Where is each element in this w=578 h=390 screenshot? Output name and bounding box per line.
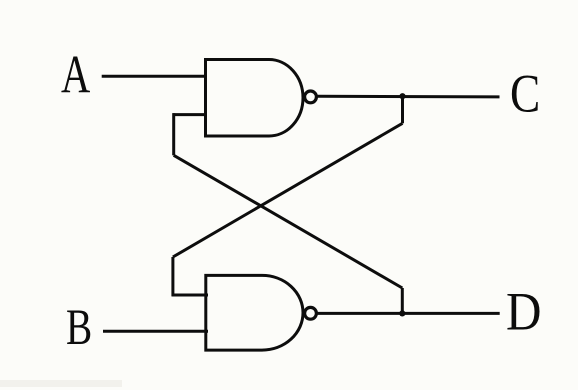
inversion bubble U1 (305, 91, 317, 103)
wire C-feedback riser at U2 (171, 257, 174, 296)
node C junction dot (399, 93, 405, 99)
NAND gate U2 body (206, 275, 303, 350)
wire U2 output to D (315, 312, 499, 315)
svg-text:A: A (61, 45, 91, 105)
wire C-feedback horizontal into U2 upper input (172, 294, 208, 297)
wire D-feedback jog at node D (401, 288, 404, 313)
svg-text:B: B (66, 298, 92, 355)
NAND gate U1 body (206, 60, 303, 137)
wire D-feedback diagonal (174, 155, 403, 288)
inversion bubble U2 (305, 307, 317, 319)
wire B to U2 lower input (103, 330, 208, 333)
svg-text:C: C (510, 64, 540, 124)
wire A to U1 upper input (102, 75, 207, 78)
svg-text:D: D (506, 282, 541, 342)
scan artifact streak bottom-left (0, 380, 122, 387)
node D junction dot (399, 310, 405, 316)
wire D-feedback horizontal into U1 lower input (173, 113, 208, 116)
wire U1 output to C (317, 95, 500, 99)
wire C-feedback diagonal (173, 123, 403, 257)
wire C-feedback jog at node C (401, 96, 404, 123)
wire D-feedback riser at U1 (172, 113, 175, 155)
